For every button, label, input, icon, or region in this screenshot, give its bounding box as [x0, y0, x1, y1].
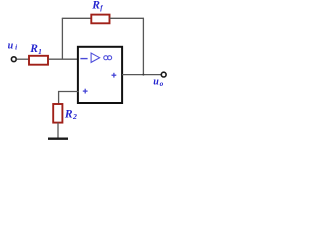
op-amp U1 body [78, 47, 122, 103]
wire op-amp output to terminal [122, 74, 162, 76]
junction output node [142, 74, 144, 76]
resistor R2 [53, 104, 62, 123]
node ui input terminal [11, 57, 16, 62]
op-amp triangle symbol [91, 53, 100, 62]
wire input terminal to R1 [17, 58, 30, 60]
wire right feedback vertical down to output [142, 18, 144, 74]
svg-text:R2: R2 [64, 108, 77, 121]
wire junction node to feedback (vertical) [61, 18, 63, 59]
ground [48, 137, 68, 139]
op-amp output plus sign [112, 73, 117, 78]
op-amp minus sign [80, 58, 87, 60]
wire Rf to right feedback corner [110, 17, 145, 19]
op-amp infinity symbol [104, 56, 112, 60]
wire op-amp plus input horizontal [59, 91, 79, 93]
resistor Rf [91, 15, 109, 24]
wire R2 to ground [57, 123, 59, 138]
wire top rail left to Rf [62, 17, 91, 19]
op-amp non-inverting plus sign [83, 89, 88, 94]
svg-text:Rf: Rf [91, 0, 103, 12]
svg-text:R1: R1 [29, 43, 42, 56]
svg-text:ui: ui [8, 40, 17, 51]
node uo output terminal [161, 72, 166, 77]
wire R1 to op-amp inverting input [49, 58, 79, 60]
wire down to R2 [58, 91, 60, 104]
svg-text:uo: uo [153, 77, 163, 88]
resistor R1 [29, 56, 48, 65]
